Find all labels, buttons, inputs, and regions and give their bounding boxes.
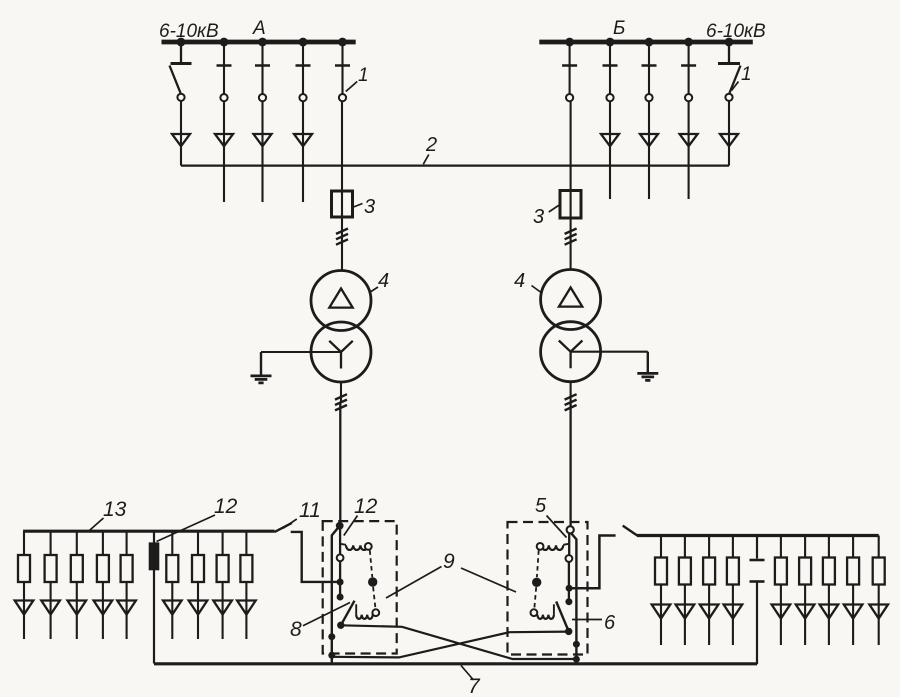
LV feeder right x=661 wire xyxy=(660,536,662,646)
HV feeder A1 arrow xyxy=(172,134,190,146)
reserve drop lower wire xyxy=(756,583,758,665)
LV feeder left x=126.6 fuse xyxy=(121,555,133,582)
crossover wire A (left bottom to right blade) xyxy=(332,632,569,658)
label 3 left leader xyxy=(354,204,363,208)
LV bus left end switch blade 11 xyxy=(275,523,292,532)
LV feeder left x=76.8 fuse xyxy=(71,555,83,582)
LV feeder left x=198 arrow xyxy=(189,601,208,615)
T1 secondary lead xyxy=(340,382,342,402)
LV feeder left x=222.6 wire xyxy=(222,531,224,639)
left box input node xyxy=(336,522,344,530)
LV feeder right x=853.1 arrow xyxy=(844,605,863,619)
svg-text:4: 4 xyxy=(378,270,389,292)
busbar A xyxy=(162,40,356,45)
LV feeder left x=102.9 fuse xyxy=(97,555,109,582)
node on bus B x=569.6 xyxy=(565,38,574,47)
HV feeder B x=610 contact circle xyxy=(606,94,613,101)
svg-text:6-10кВ: 6-10кВ xyxy=(159,21,219,42)
reserve open contact bar upper xyxy=(750,559,765,562)
LV feeder right x=805.1 wire xyxy=(804,536,806,646)
HV feeder B x=649 contact bar xyxy=(642,64,657,67)
left box blade node xyxy=(337,622,344,629)
fuse 3 left xyxy=(332,191,353,217)
HV feeder B x=649 arrow xyxy=(640,134,658,146)
HV feeder B x=610 wire upper xyxy=(609,44,611,94)
label 12 box leader xyxy=(344,516,358,536)
transformer T2 star winding xyxy=(559,341,583,369)
LV busbar left xyxy=(23,530,275,533)
right box contact circle xyxy=(566,555,573,562)
reserve fuse 12 wire xyxy=(153,531,155,663)
right box bypass node 1 xyxy=(573,641,580,648)
label 9 leader left xyxy=(386,567,442,599)
node on bus A x=303 xyxy=(299,38,308,47)
LV feeder right x=732.9 arrow xyxy=(724,605,743,619)
transformer T1 secondary circle xyxy=(311,322,371,382)
HV feeder B x=688.6 wire mid xyxy=(688,101,690,199)
mechanical link dashed lower xyxy=(373,587,375,609)
transformer T1 feeder contact bar xyxy=(335,64,350,67)
right box terminal node xyxy=(565,598,572,605)
transformer T2 delta winding xyxy=(559,288,582,307)
right box coil tick upper xyxy=(563,544,569,545)
node on bus A x=342.5 xyxy=(338,38,347,47)
label 1 left leader xyxy=(346,82,357,92)
LV feeder right x=780.9 arrow xyxy=(772,605,791,619)
svg-text:1: 1 xyxy=(741,64,752,85)
LV feeder left x=172.3 arrow xyxy=(163,601,182,615)
left box contact circle xyxy=(337,554,344,561)
HV feeder A x=224 contact bar xyxy=(217,64,232,67)
LV feeder left x=50.6 fuse xyxy=(45,555,57,582)
mechanical link pivot dot right xyxy=(532,578,541,587)
node on bus A x=224 xyxy=(220,38,229,47)
label 3 right leader xyxy=(549,205,559,212)
LV feeder right x=684.9 arrow xyxy=(676,605,695,619)
LV feeder right x=828.9 arrow xyxy=(820,605,839,619)
reserve open contact bar lower xyxy=(750,580,765,583)
svg-text:3: 3 xyxy=(533,206,544,228)
transformer T2 feeder contact bar xyxy=(562,64,577,67)
HV feeder A1 switch blade xyxy=(170,66,181,94)
HV feeder A x=303 wire upper xyxy=(302,44,304,94)
LV feeder right x=732.9 fuse xyxy=(727,558,739,585)
HV feeder B x=649 wire upper xyxy=(648,44,650,94)
svg-text:8: 8 xyxy=(290,618,302,641)
transformer T2 feeder contact circle xyxy=(566,94,573,101)
LV feeder left x=102.9 wire xyxy=(102,531,104,639)
lower coil end circle left box xyxy=(372,609,379,616)
LV feeder right x=878.7 fuse xyxy=(873,558,885,585)
label 11 leader xyxy=(283,519,297,528)
LV feeder right x=709.1 fuse xyxy=(703,558,715,585)
left box lower blade 8 xyxy=(341,601,355,626)
LV feeder left x=76.8 wire xyxy=(76,531,78,639)
LV feeder left x=198 wire xyxy=(197,531,199,639)
LV feeder right x=853.1 fuse xyxy=(847,558,859,585)
mechanical link dashed upper right xyxy=(537,550,539,577)
LV feeder right x=853.1 wire xyxy=(852,536,854,646)
reserve drop open contact upper wire xyxy=(756,536,758,559)
HV feeder A x=224 contact circle xyxy=(220,94,227,101)
cable break below fuse 3 right xyxy=(565,229,577,234)
left box node at tie entry xyxy=(337,579,344,586)
transformer T2 feeder wire upper xyxy=(569,44,571,94)
busbar B xyxy=(539,40,753,45)
svg-text:13: 13 xyxy=(103,498,127,521)
label 13 leader xyxy=(90,518,104,530)
svg-text:11: 11 xyxy=(299,499,321,522)
HV feeder B x=688.6 contact circle xyxy=(685,94,692,101)
LV feeder left x=24 fuse xyxy=(18,555,30,582)
lower coil winding left box xyxy=(356,615,373,619)
svg-text:5: 5 xyxy=(535,495,547,517)
right box stub to terminal xyxy=(568,588,570,598)
right box blade node xyxy=(565,628,572,635)
HV feeder A1 wire xyxy=(180,101,182,166)
lower coil end circle right box xyxy=(531,609,538,616)
LV feeder right x=732.9 wire xyxy=(732,536,734,646)
LV feeder right x=661 fuse xyxy=(655,558,667,585)
LV feeder right x=709.1 arrow xyxy=(700,605,719,619)
label 1 right leader xyxy=(732,82,739,91)
reserve tie line 7 xyxy=(154,662,757,665)
label 9 leader right xyxy=(461,568,516,592)
dashed enclosure right xyxy=(508,522,588,655)
LV feeder left x=102.9 arrow xyxy=(94,601,113,615)
svg-text:4: 4 xyxy=(514,270,525,292)
right box wire below contact xyxy=(568,562,570,588)
LV busbar right xyxy=(637,534,879,537)
lower coil tick right box xyxy=(553,604,555,614)
svg-text:А: А xyxy=(252,18,266,39)
label 4 right leader xyxy=(532,286,542,294)
HV feeder A x=303 contact bar xyxy=(296,64,311,67)
LV feeder left x=172.3 wire xyxy=(171,531,173,639)
label 5 leader xyxy=(547,516,567,538)
HV feeder A x=224 wire mid xyxy=(223,101,225,202)
lower coil tick left box xyxy=(355,604,357,614)
cable break below fuse 3 left xyxy=(336,229,348,234)
fuse 3 right xyxy=(560,191,581,219)
transformer T1 feeder wire upper xyxy=(341,44,343,94)
LV feeder right x=878.7 arrow xyxy=(869,605,888,619)
LV feeder right x=709.1 wire xyxy=(708,536,710,646)
LV feeder left x=24 arrow xyxy=(15,601,34,615)
crossover wire B (left blade to right bottom) xyxy=(341,625,577,659)
HV feeder A x=262.5 arrow xyxy=(254,134,272,146)
HV feeder A x=303 wire mid xyxy=(302,101,304,202)
HV feeder A x=224 wire upper xyxy=(223,44,225,94)
label 12 left leader xyxy=(157,515,216,542)
svg-text:6-10кВ: 6-10кВ xyxy=(706,21,766,42)
HV feeder A x=262.5 contact circle xyxy=(259,94,266,101)
LV feeder left x=24 wire xyxy=(23,531,25,639)
svg-text:12: 12 xyxy=(354,495,378,518)
transformer T2 secondary circle xyxy=(541,322,601,382)
left box bypass wire xyxy=(332,526,340,664)
cable break below T1 xyxy=(335,394,347,399)
HV feeder A x=224 arrow xyxy=(215,134,233,146)
upper coil winding left box xyxy=(346,545,368,550)
HV feeder B5 switch bar xyxy=(718,62,740,65)
mechanical link dashed upper xyxy=(370,550,373,577)
HV feeder A x=303 arrow xyxy=(294,134,312,146)
svg-text:1: 1 xyxy=(358,65,369,86)
LV feeder right x=661 arrow xyxy=(652,605,671,619)
HV feeder B x=610 contact bar xyxy=(603,64,618,67)
LV feeder right x=780.9 fuse xyxy=(775,558,787,585)
LV feeder right x=878.7 wire xyxy=(878,536,880,646)
LV feeder left x=198 fuse xyxy=(192,555,204,582)
svg-text:3: 3 xyxy=(364,196,375,218)
HV feeder A1 stub xyxy=(180,44,182,63)
contact circle 5 (right box input) xyxy=(567,526,574,533)
node on bus B x=688.6 xyxy=(684,38,693,47)
right box bypass node 2 xyxy=(573,656,580,663)
tie wire 11 to contactor box left xyxy=(291,532,340,582)
node on bus B x=610 xyxy=(606,38,615,47)
HV feeder B5 switch blade xyxy=(729,66,740,94)
upper coil end circle right box xyxy=(537,543,544,550)
left box terminal node xyxy=(337,594,344,601)
HV feeder B5 wire xyxy=(728,101,730,166)
label 4 left leader xyxy=(370,287,379,293)
HV feeder B5 arrow xyxy=(720,134,738,146)
T2 secondary lead xyxy=(570,382,572,403)
left box stub to terminal xyxy=(339,582,341,594)
left box bypass node 1 xyxy=(328,633,335,640)
left box coil tick upper xyxy=(340,544,346,545)
upper coil end circle left box xyxy=(365,543,372,550)
svg-text:6: 6 xyxy=(604,612,616,634)
HV feeder A x=262.5 wire upper xyxy=(261,44,263,94)
svg-text:2: 2 xyxy=(425,134,437,156)
T2 primary wire xyxy=(570,101,572,270)
svg-text:Б: Б xyxy=(613,18,625,39)
LV feeder left x=126.6 arrow xyxy=(117,601,136,615)
HV feeder B x=649 contact circle xyxy=(645,94,652,101)
right box lower blade 6 xyxy=(556,602,569,632)
label 6 leader xyxy=(572,619,602,621)
right box node at tie entry xyxy=(566,585,573,592)
right box bypass wire xyxy=(571,533,577,664)
node on bus A x=181 xyxy=(177,38,186,47)
HV feeder B x=688.6 wire upper xyxy=(688,44,690,94)
T1 LV cable xyxy=(339,402,341,524)
LV feeder right x=828.9 fuse xyxy=(823,558,835,585)
LV feeder right x=805.1 arrow xyxy=(796,605,815,619)
LV feeder left x=50.6 wire xyxy=(50,531,52,639)
left box bypass node 2 xyxy=(328,652,335,659)
T1 neutral down wire xyxy=(260,352,262,376)
label 8 leader xyxy=(303,603,350,626)
right box main contact wire xyxy=(568,533,570,555)
node on bus B x=649 xyxy=(645,38,654,47)
LV feeder left x=246.4 arrow xyxy=(237,601,256,615)
HV feeder A x=303 contact circle xyxy=(299,94,306,101)
transformer T1 primary circle xyxy=(311,271,371,331)
left box wire below contact xyxy=(339,561,341,582)
T1 primary wire xyxy=(341,101,343,271)
LV feeder left x=246.4 wire xyxy=(245,531,247,639)
HV feeder B x=688.6 arrow xyxy=(680,134,698,146)
svg-text:12: 12 xyxy=(214,495,238,518)
LV feeder left x=172.3 fuse xyxy=(166,555,178,582)
label 2 leader xyxy=(423,155,429,165)
LV feeder right x=684.9 fuse xyxy=(679,558,691,585)
LV bus right end switch blade xyxy=(623,526,638,536)
HV feeder A x=262.5 contact bar xyxy=(255,64,270,67)
HV feeder A x=262.5 wire mid xyxy=(261,101,263,202)
LV feeder right x=828.9 wire xyxy=(828,536,830,646)
transformer T2 primary circle xyxy=(541,270,601,330)
LV feeder left x=76.8 arrow xyxy=(68,601,87,615)
mechanical link pivot dot xyxy=(368,577,377,586)
T2 neutral wire xyxy=(571,351,648,353)
node on bus A x=262.5 xyxy=(258,38,267,47)
transformer T1 delta winding xyxy=(329,289,352,308)
T2 LV cable xyxy=(569,402,571,526)
lower coil winding right box xyxy=(537,615,554,619)
HV feeder A1 switch bar xyxy=(171,62,192,65)
T2 neutral down wire xyxy=(647,352,649,373)
T1 neutral wire xyxy=(261,351,341,353)
HV feeder B5 contact circle xyxy=(725,94,732,101)
tie wire right box to bus xyxy=(569,536,616,589)
ground T2 xyxy=(637,373,658,380)
ground T1 xyxy=(251,376,272,383)
LV feeder left x=126.6 wire xyxy=(126,531,128,639)
reserve fuse 12 (solid) xyxy=(149,542,160,570)
LV feeder left x=50.6 arrow xyxy=(41,601,60,615)
HV feeder B x=688.6 contact bar xyxy=(681,64,696,67)
dashed enclosure left xyxy=(323,521,397,653)
LV feeder left x=222.6 arrow xyxy=(213,601,232,615)
mechanical link dashed lower right xyxy=(534,587,536,609)
svg-text:9: 9 xyxy=(443,550,455,573)
LV feeder left x=246.4 fuse xyxy=(240,555,252,582)
HV tie line 2 xyxy=(181,165,729,167)
left box main contact wire xyxy=(339,526,341,555)
HV feeder B5 stub xyxy=(728,44,730,63)
HV feeder A1 contact circle xyxy=(177,94,184,101)
LV feeder right x=684.9 wire xyxy=(684,536,686,646)
transformer T1 feeder contact circle xyxy=(339,94,346,101)
node on bus B x=729 xyxy=(725,38,734,47)
HV feeder B x=649 wire mid xyxy=(648,101,650,199)
HV feeder B x=610 wire mid xyxy=(609,101,611,199)
svg-text:7: 7 xyxy=(468,675,481,697)
LV feeder left x=222.6 fuse xyxy=(217,555,229,582)
cable break below T2 xyxy=(565,394,577,399)
label 7 leader xyxy=(461,666,474,681)
LV feeder right x=805.1 fuse xyxy=(799,558,811,585)
upper coil winding right box xyxy=(542,545,564,550)
transformer T1 star winding xyxy=(329,341,353,369)
LV feeder right x=780.9 wire xyxy=(780,536,782,646)
HV feeder B x=610 arrow xyxy=(601,134,619,146)
